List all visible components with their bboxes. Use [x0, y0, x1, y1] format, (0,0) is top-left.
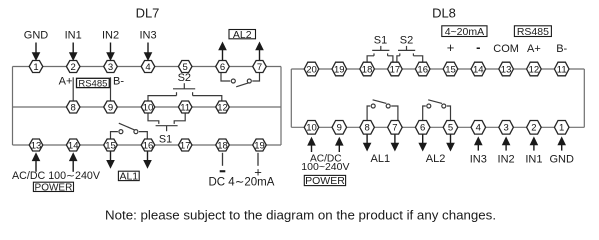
svg-text:19: 19 [334, 64, 345, 75]
terminal 10 [304, 121, 319, 135]
input arrow IN3 into terminal 3 [474, 136, 483, 150]
svg-text:RS485: RS485 [78, 78, 107, 89]
alarm box AL2 [229, 29, 256, 41]
svg-text:AC/DC 100∼240V: AC/DC 100∼240V [12, 170, 101, 182]
wire DL7 left frame [12, 67, 14, 146]
svg-text:5: 5 [448, 123, 453, 134]
terminal 17 [178, 139, 192, 151]
terminal 2 [66, 61, 80, 73]
svg-text:8: 8 [71, 102, 76, 113]
input arrow IN2 into terminal 3 [106, 43, 115, 62]
svg-text:IN3: IN3 [139, 30, 156, 42]
svg-text:A+: A+ [527, 43, 541, 55]
svg-text:9: 9 [108, 102, 113, 113]
svg-text:2: 2 [71, 62, 76, 73]
label plus (DL8) [447, 40, 455, 55]
svg-text:7: 7 [257, 62, 262, 73]
terminal 7 [253, 61, 267, 73]
svg-text:17: 17 [390, 64, 401, 75]
output arrow AL1 from terminal 7 [391, 134, 400, 151]
svg-text:6: 6 [220, 62, 225, 73]
label DC 4-20mA [209, 176, 275, 188]
svg-text:19: 19 [254, 140, 265, 151]
svg-text:15: 15 [105, 140, 116, 151]
svg-text:12: 12 [217, 102, 228, 113]
relay contact AL2 (terminals 6-5) [423, 100, 451, 121]
POWER box (DL8) [304, 175, 345, 187]
svg-text:IN1: IN1 [65, 30, 82, 42]
terminal 16 [415, 62, 430, 76]
note text [105, 208, 496, 223]
svg-text:DL8: DL8 [432, 6, 456, 21]
label A+ [59, 76, 73, 88]
RS485 box (DL7) [77, 78, 110, 89]
terminal 9 [332, 121, 347, 135]
svg-text:10: 10 [143, 102, 154, 113]
label S1 (DL7) [159, 133, 172, 145]
svg-text:4: 4 [476, 123, 481, 134]
svg-text:COM: COM [493, 43, 519, 55]
output arrow AL2 from terminal 6 [218, 42, 227, 62]
svg-text:POWER: POWER [305, 175, 345, 187]
terminal 15 [443, 62, 458, 76]
svg-text:14: 14 [68, 140, 79, 151]
wire RS485 B- from terminal 9 [110, 77, 112, 101]
label 100-240V (DL8) [301, 161, 349, 173]
label IN1 [65, 30, 82, 42]
svg-text:DC 4∼20mA: DC 4∼20mA [209, 176, 275, 188]
svg-text:4~20mA: 4~20mA [445, 26, 484, 38]
terminal 8 [66, 101, 80, 113]
terminal 17 [388, 62, 403, 76]
svg-text:18: 18 [362, 64, 373, 75]
output arrow AL2 from terminal 6 [418, 134, 427, 151]
svg-text:16: 16 [417, 64, 428, 75]
relay contact AL1 (terminals 15-16) [111, 123, 148, 139]
svg-text:B-: B- [113, 76, 124, 88]
svg-text:AL2: AL2 [426, 153, 446, 165]
svg-text:S1: S1 [374, 35, 387, 47]
label AL2 (DL8) [426, 153, 446, 165]
svg-text:S2: S2 [400, 35, 413, 47]
terminal 5 [178, 61, 192, 73]
terminal 1 [29, 61, 43, 73]
svg-text:DL7: DL7 [136, 6, 160, 21]
terminal 3 [104, 61, 118, 73]
relay contact AL2 (terminals 6-7) [221, 72, 260, 86]
svg-text:7: 7 [392, 123, 397, 134]
power arrow into terminal 14 [69, 152, 78, 172]
terminal 5 [443, 121, 458, 135]
terminal 10 [141, 101, 155, 113]
terminal 13 [29, 139, 43, 151]
wire minus stub from terminal 18 [222, 153, 224, 166]
svg-text:11: 11 [180, 102, 190, 113]
label minus (DL8) [476, 39, 480, 54]
svg-text:17: 17 [180, 140, 191, 151]
output arrow AL1 from terminal 8 [363, 134, 372, 151]
svg-text:S1: S1 [159, 133, 172, 145]
alarm box AL1 [118, 171, 139, 183]
label IN1 (DL8) [525, 153, 542, 165]
POWER box (DL7) [33, 182, 73, 193]
label IN2 [102, 30, 119, 42]
svg-text:RS485: RS485 [517, 26, 549, 38]
svg-text:3: 3 [108, 62, 113, 73]
title DL8 [432, 6, 456, 21]
svg-text:4: 4 [145, 62, 150, 73]
svg-text:5: 5 [183, 62, 188, 73]
svg-text:18: 18 [217, 140, 228, 151]
label IN2 (DL8) [498, 153, 515, 165]
pushbutton S1 (terminals 18-17) [367, 46, 393, 62]
svg-text:100~240V: 100~240V [301, 161, 349, 173]
label AL1 (DL8) [371, 153, 391, 165]
pushbutton S2 (terminals 10-12) [148, 83, 222, 101]
label GND [24, 30, 49, 42]
terminal 18 [360, 62, 375, 76]
terminal 18 [216, 139, 230, 151]
wire DL8 row1 bus [291, 68, 584, 70]
terminal 6 [415, 121, 430, 135]
svg-text:20: 20 [306, 64, 317, 75]
input arrow GND into terminal 1 [32, 43, 41, 62]
terminal 13 [499, 62, 514, 76]
label S1 (DL8) [374, 35, 387, 47]
svg-text:13: 13 [31, 140, 42, 151]
power arrow into terminal 10 [307, 137, 316, 152]
terminal 16 [141, 139, 155, 151]
title DL7 [136, 6, 160, 21]
label IN3 [139, 30, 156, 42]
wire DL7 row2 bus [13, 106, 282, 108]
wire RS485 A+ from terminal 8 [72, 77, 74, 101]
RS485 box (DL8) [514, 26, 551, 38]
terminal 11 [178, 101, 192, 113]
svg-text:-: - [476, 39, 480, 54]
svg-text:Note: please subject to the di: Note: please subject to the diagram on t… [105, 208, 496, 223]
power arrow into terminal 9 [335, 137, 344, 152]
svg-text:9: 9 [337, 123, 342, 134]
terminal 20 [304, 62, 319, 76]
terminal 6 [216, 61, 230, 73]
svg-text:GND: GND [549, 153, 574, 165]
svg-text:6: 6 [420, 123, 425, 134]
svg-text:1: 1 [559, 123, 564, 134]
wire DL8 right frame [583, 69, 585, 127]
terminal 3 [499, 121, 514, 135]
output arrow AL2 from terminal 5 [446, 134, 455, 151]
input arrow GND into terminal 1 [557, 136, 566, 150]
svg-text:IN2: IN2 [102, 30, 119, 42]
terminal 12 [527, 62, 542, 76]
svg-text:2: 2 [531, 123, 536, 134]
terminal 9 [104, 101, 118, 113]
output arrow AL1 from terminal 15 [106, 151, 115, 169]
terminal 1 [554, 121, 569, 135]
svg-text:IN2: IN2 [498, 153, 515, 165]
input arrow IN1 into terminal 2 [69, 43, 78, 62]
terminal 19 [253, 139, 267, 151]
label B- (DL8) [556, 43, 567, 55]
wire DL7 row1 bus [13, 66, 282, 68]
label plus (DL7) [254, 165, 262, 180]
terminal 4 [141, 61, 155, 73]
svg-text:B-: B- [556, 43, 567, 55]
wire DL8 left frame [290, 69, 292, 127]
label S2 (DL8) [400, 35, 413, 47]
input arrow IN1 into terminal 1 [530, 136, 539, 150]
output arrow AL1 from terminal 16 [143, 151, 152, 169]
terminal 2 [527, 121, 542, 135]
svg-text:A+: A+ [59, 76, 73, 88]
pushbutton S2 (terminals 17-16) [397, 46, 423, 62]
input arrow IN2 into terminal 2 [502, 136, 511, 150]
svg-text:11: 11 [557, 64, 567, 75]
svg-text:AL2: AL2 [233, 29, 252, 41]
label GND (DL8) [549, 153, 574, 165]
output arrow AL2 from terminal 7 [255, 42, 264, 62]
svg-text:10: 10 [306, 123, 317, 134]
relay contact AL1 (terminals 8-7) [367, 100, 398, 121]
svg-text:14: 14 [473, 64, 484, 75]
terminal 7 [388, 121, 403, 135]
box 4-20mA [442, 26, 487, 38]
svg-text:POWER: POWER [35, 182, 73, 193]
terminal 11 [554, 62, 569, 76]
svg-text:12: 12 [529, 64, 540, 75]
terminal 14 [66, 139, 80, 151]
wire plus stub from terminal 19 [257, 153, 259, 166]
label IN3 (DL8) [470, 153, 487, 165]
svg-text:3: 3 [503, 123, 508, 134]
svg-text:AL1: AL1 [371, 153, 391, 165]
label S2 (DL7) [178, 72, 191, 84]
label minus (DL7) [220, 170, 226, 172]
label AC/DC 100-240V (DL7) [12, 170, 101, 182]
label AC/DC (DL8) [310, 153, 342, 164]
terminal 4 [471, 121, 486, 135]
terminal 15 [104, 139, 118, 151]
label COM [493, 43, 519, 55]
svg-text:S2: S2 [178, 72, 191, 84]
label B- [113, 76, 124, 88]
terminal 8 [360, 121, 375, 135]
svg-text:15: 15 [445, 64, 456, 75]
svg-text:GND: GND [24, 30, 49, 42]
wire DL7 row3 bus [13, 144, 282, 146]
wire DL7 right frame [280, 67, 282, 146]
svg-text:1: 1 [33, 62, 38, 73]
wire DL8 row2 bus [291, 126, 584, 128]
terminal 14 [471, 62, 486, 76]
power arrow into terminal 13 [32, 152, 41, 172]
svg-text:AL1: AL1 [119, 171, 138, 183]
svg-text:8: 8 [364, 123, 369, 134]
terminal 19 [332, 62, 347, 76]
svg-text:IN3: IN3 [470, 153, 487, 165]
input arrow IN3 into terminal 4 [144, 43, 153, 62]
label A+ (DL8) [527, 43, 541, 55]
pushbutton S1 (terminals 10-11) [148, 113, 185, 131]
svg-text:13: 13 [501, 64, 512, 75]
terminal 12 [216, 101, 230, 113]
svg-text:16: 16 [143, 140, 154, 151]
svg-text:IN1: IN1 [525, 153, 542, 165]
svg-text:+: + [447, 40, 455, 55]
